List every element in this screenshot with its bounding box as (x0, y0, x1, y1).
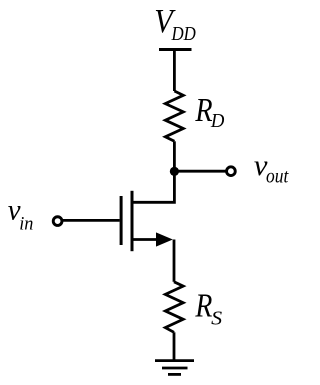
resistor RD (165, 91, 183, 141)
wire node to vout terminal (174, 170, 226, 173)
wire gate lead from vin terminal (62, 219, 120, 222)
wire node down to drain lead (133, 171, 174, 202)
resistor RD value label (195, 92, 225, 132)
ground symbol middle bar (162, 367, 188, 370)
node vout label (254, 149, 289, 188)
wire RS bottom to ground (173, 332, 176, 360)
resistor RS value label (195, 288, 223, 330)
svg-text:in: in (19, 213, 33, 234)
ground symbol top bar (155, 359, 194, 362)
terminal vout open circle (227, 167, 236, 176)
svg-text:D: D (210, 110, 225, 132)
svg-text:out: out (266, 167, 289, 188)
resistor RS (165, 282, 183, 333)
node drain junction dot (170, 167, 179, 176)
transistor Q1 source arrow (156, 232, 173, 246)
wire VDD bar to RD top (173, 50, 176, 92)
net VDD label (154, 3, 196, 45)
wire RD bottom to drain node (173, 141, 176, 171)
svg-text:S: S (211, 307, 222, 329)
node vin label (8, 193, 34, 234)
transistor Q1 channel bar (131, 191, 134, 251)
svg-text:DD: DD (171, 24, 196, 45)
wire source to RS top (173, 240, 176, 282)
svg-text:R: R (195, 288, 213, 325)
transistor Q1 source lead (133, 238, 159, 241)
power supply VDD bar (159, 48, 192, 51)
ground symbol bottom bar (168, 373, 181, 376)
terminal vin open circle (53, 217, 62, 226)
transistor Q1 gate bar (120, 196, 123, 245)
